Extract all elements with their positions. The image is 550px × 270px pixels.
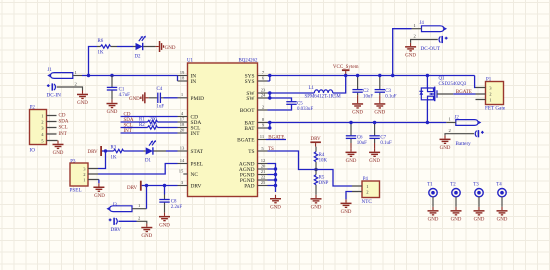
svg-text:11: 11 [260,134,265,139]
transistor Q1 CSD25402Q3 PMOS [419,76,466,123]
svg-text:Battery: Battery [456,141,472,147]
node VCC junction [344,74,347,77]
svg-text:GND: GND [107,110,118,115]
U1 right pin BAT 9 [244,122,267,132]
svg-text:GND: GND [352,111,363,116]
svg-text:DRV: DRV [191,184,202,190]
test point T4 [496,183,506,207]
resistor R4 10K [314,147,327,170]
connector J4 DC-OUT [411,21,448,52]
node C2 junction [356,74,359,77]
svg-text:C8: C8 [171,200,177,205]
wire INT net [121,132,178,134]
svg-text:GND: GND [428,218,439,223]
svg-text:R4: R4 [319,153,325,158]
node C8 junction [163,184,166,187]
power port DRV (at R4) [310,137,321,146]
svg-text:18: 18 [180,122,185,127]
svg-text:13: 13 [180,145,185,150]
svg-text:INT: INT [191,131,201,137]
ground (C7) [369,148,380,164]
svg-text:IN: IN [191,79,197,85]
svg-text:PAD: PAD [244,184,254,190]
ground (T2) [451,207,462,223]
node Q1 drain junction [426,121,429,124]
svg-text:GND: GND [451,218,462,223]
node J3 junction [145,184,148,187]
svg-text:DC-IN: DC-IN [47,93,62,99]
node J4 junction [391,74,394,77]
node R4/R5 junction [314,168,317,171]
wire input rail [82,76,178,82]
svg-text:GND: GND [440,146,451,151]
wire R6 to D2 [117,46,133,48]
node SYS junction [268,74,271,77]
node C3 junction [378,74,381,77]
U1 left pin NC 15 [179,168,199,178]
capacitor C8 2.2uF [159,186,182,213]
ground (C4 left, horizontal port) [129,92,149,103]
svg-text:BAT: BAT [244,126,255,132]
svg-text:SYS: SYS [245,79,255,85]
U1 left pin DRV 3 [178,180,202,190]
node C7 junction [373,121,376,124]
svg-text:C1: C1 [119,88,125,93]
svg-text:DNP: DNP [319,181,329,186]
wire BOOT to C5 [268,104,292,110]
svg-text:SPM6412T-1R5M: SPM6412T-1R5M [305,95,342,100]
U1 right pin PGND 21 [240,169,268,179]
svg-text:GND: GND [311,206,322,211]
wire DRV rail to U1 DRV pin [142,185,178,187]
ground (P2 pin5) [53,141,64,157]
svg-text:CD: CD [124,112,131,117]
ground (P3 pin1) [93,180,105,200]
connector P1 FET Gate [476,77,506,111]
node PAD junction [274,184,277,187]
svg-text:CSD25402Q3: CSD25402Q3 [439,82,467,87]
resistor R3 1K [111,146,124,161]
U1 left pin PMID 1 [178,92,205,102]
LED D2 [133,36,156,60]
ground (J4 pin 2) [405,43,416,59]
svg-text:DRV: DRV [88,150,99,155]
svg-text:GND: GND [77,101,88,106]
svg-text:PSEL: PSEL [70,187,82,193]
svg-text:IO: IO [30,148,36,154]
svg-text:GND: GND [341,210,352,215]
wire P4 pin2 to ground [346,192,352,200]
resistor R2 200 (SCL) [121,123,178,129]
connector J3 DRV jack [108,203,147,233]
svg-text:SCL: SCL [124,123,133,128]
svg-text:1K: 1K [111,156,117,161]
capacitor C6 10uF [346,123,367,149]
U1 right pin BAT 8 [244,117,267,127]
svg-text:T2: T2 [450,183,456,188]
connector P4 NTC [352,177,380,205]
svg-text:GND: GND [270,205,281,210]
power port VCC_Sytem [333,65,359,75]
svg-text:GND: GND [474,218,485,223]
node input-R6 junction [87,74,90,77]
U1 right pin PGND 22 [240,174,268,184]
power port DRV (at R3) [88,146,103,156]
svg-text:C6: C6 [357,136,363,141]
wire J3 pin1 to DRV rail [146,186,148,209]
wire TS net to P4 [268,151,353,186]
wire DRV to R3 [102,150,114,152]
svg-text:17: 17 [180,116,185,121]
capacitor C3 0.1uF [375,76,397,101]
U1 left pin INT 20 [178,127,201,137]
wire AGND/PGND/PAD chain [268,164,276,193]
U1 right pin SW 24 [246,92,267,102]
svg-text:GND: GND [53,151,64,156]
svg-text:10uF: 10uF [357,141,367,146]
svg-text:19: 19 [180,70,185,75]
wire J4 pin1 down to VCC rail [393,29,412,76]
U1 left pin SCL 18 [178,122,201,132]
svg-text:GND: GND [346,159,357,164]
svg-text:GND: GND [94,194,105,199]
ground (P4 pin 2) [341,199,352,215]
node SW junction top [268,91,271,94]
svg-text:10uF: 10uF [363,94,373,99]
capacitor C5 0.033uF [286,102,313,112]
U1 right pin PAD 25 [244,180,267,190]
ground (U1 AGND/PGND) [270,195,281,211]
svg-text:SCL: SCL [59,126,68,131]
svg-text:BGATE: BGATE [237,138,255,144]
wire P3 pin2 to PSEL pin [98,164,178,175]
ground (C1) [107,100,118,116]
svg-text:15: 15 [179,168,184,173]
ground (J3 pin 2) [141,224,152,240]
U1 left pin SDA 17 [178,116,202,126]
wire C4 to PMID [164,97,178,99]
ground (R5) [311,195,322,211]
svg-text:2.2uF: 2.2uF [171,205,183,210]
U1 left pin CD 4 [178,111,199,121]
resistor R5 DNP [314,170,328,195]
U1 right pin TS 5 [248,146,267,155]
svg-text:C4: C4 [157,87,163,92]
svg-text:T3: T3 [473,183,479,188]
wire SYS pins to VCC rail [268,76,475,82]
inductor L1 SPM6412T-1R5M [305,86,342,99]
svg-text:BGATE: BGATE [456,90,472,95]
svg-text:20: 20 [180,127,185,132]
svg-text:T1: T1 [427,183,433,188]
U1 left pin PSEL 14 [178,158,204,168]
ground (C8) [159,213,170,229]
svg-text:GND: GND [405,54,416,59]
LED D1 [144,140,167,163]
svg-text:BOOT: BOOT [240,108,255,114]
U1 left pin IN 18 [178,76,197,86]
svg-text:GND: GND [141,234,152,239]
svg-text:DRV: DRV [111,227,122,233]
U1 right pin AGND 12 [239,158,268,168]
node SW junction bottom [268,96,271,99]
svg-text:25: 25 [261,180,266,185]
svg-text:INT: INT [59,132,67,137]
node BGATE (U1 stub) [266,136,286,141]
U1 right pin AGND 20 [239,163,268,173]
wire D1 to STAT [166,150,178,152]
wire CD net [121,116,178,118]
capacitor C4 1uF [149,87,165,109]
svg-text:TS: TS [248,149,254,155]
wire SW pins [268,93,315,102]
svg-text:D2: D2 [135,55,142,60]
ground (C6) [346,148,357,164]
node Q1 source junction [426,74,429,77]
ground (C2) [352,100,363,116]
svg-text:DRV: DRV [127,186,138,191]
node PGND junction 2 [274,178,277,181]
svg-text:R5: R5 [319,175,325,180]
connector J2 Battery [445,115,484,147]
svg-text:PSEL: PSEL [191,162,204,168]
svg-text:12: 12 [261,158,266,163]
svg-text:D1: D1 [145,158,152,163]
node PGND junction [274,173,277,176]
capacitor C2 10uF [352,76,373,101]
wire Q1 gate to P1 [437,93,476,95]
capacitor C7 0.1uF [369,123,392,149]
svg-text:20: 20 [261,163,266,168]
svg-text:24: 24 [261,92,266,97]
svg-text:SDA: SDA [59,119,69,124]
wire BAT pins to battery rail [268,123,447,129]
test point T2 [450,183,460,207]
connector P3 PSEL [70,159,99,193]
svg-text:NC: NC [191,172,199,178]
ground (T4) [497,207,508,223]
svg-text:GND: GND [159,223,170,228]
resistor R6 1K [97,39,117,55]
svg-text:GND: GND [129,97,140,102]
svg-text:GND: GND [165,46,176,51]
node input-C1 junction [110,74,113,77]
test point T1 [427,183,437,207]
wire L1 to VCC node [333,76,346,94]
capacitor C1 4.7uF [107,76,130,100]
op-amp U1 BQ24262 charger IC [187,59,258,197]
svg-text:18: 18 [180,76,185,81]
svg-text:NTC: NTC [362,199,373,205]
wire R3 to D1 [124,150,144,152]
svg-text:GND: GND [374,111,385,116]
svg-text:BGATE: BGATE [268,136,284,141]
ground (D2 cathode, horizontal port) [156,41,176,52]
wire VCC rail to P1 pin3 [474,76,477,88]
svg-text:0.033uF: 0.033uF [297,107,313,112]
svg-text:T4: T4 [496,183,502,188]
svg-text:GND: GND [497,218,508,223]
svg-text:L1: L1 [309,86,315,91]
svg-text:R6: R6 [98,39,104,44]
connector P2 IO [30,106,58,154]
power port DRV (bottom rail) [127,181,142,191]
svg-text:22: 22 [261,174,266,179]
ground (J1 pin 2) [77,91,88,107]
node BAT junction top [268,121,271,124]
U1 right pin SW 23 [246,87,267,97]
svg-text:FET Gate: FET Gate [485,106,506,112]
svg-text:SDA: SDA [124,118,134,123]
svg-text:10K: 10K [319,159,328,164]
svg-text:J1: J1 [48,68,53,73]
U1 right pin SYS 7 [245,70,268,80]
ground (T3) [474,207,485,223]
svg-text:CD: CD [59,113,66,118]
svg-text:R1: R1 [139,117,145,122]
svg-text:Q1: Q1 [439,77,446,82]
resistor R1 200 (SDA) [121,117,178,123]
svg-text:INT: INT [124,129,132,134]
U1 left pin STAT 13 [178,145,204,155]
svg-text:1uF: 1uF [157,104,165,109]
node AGND junction [274,167,277,170]
ground (C3) [374,100,385,116]
svg-text:SW: SW [246,96,255,102]
ground (T1) [428,207,439,223]
svg-text:21: 21 [261,169,266,174]
svg-text:GND: GND [369,159,380,164]
test point T3 [473,183,483,207]
svg-text:PMID: PMID [191,96,205,102]
ground (J2 pin 2) [440,135,451,151]
U1 left pin IN 19 [178,70,197,80]
wire P3 pin3 to DRV node [98,151,106,169]
svg-text:14: 14 [180,158,185,163]
connector J1 DC-IN [47,68,83,99]
U1 right pin SYS 6 [245,76,268,86]
svg-text:0.1uF: 0.1uF [380,141,392,146]
wire R6 branch [89,47,98,76]
U1 right pin BOOT 2 [240,104,268,114]
svg-text:DC-OUT: DC-OUT [421,46,441,52]
svg-text:C7: C7 [380,136,386,141]
node P3 pin3 junction [104,149,107,152]
svg-text:R2: R2 [139,123,145,128]
node BAT junction bottom [268,126,271,129]
U1 right pin BGATE 11 [237,134,266,143]
svg-text:1K: 1K [98,50,104,55]
svg-text:0.1uF: 0.1uF [385,94,397,99]
svg-text:STAT: STAT [191,149,204,155]
node C6 junction [349,121,352,124]
